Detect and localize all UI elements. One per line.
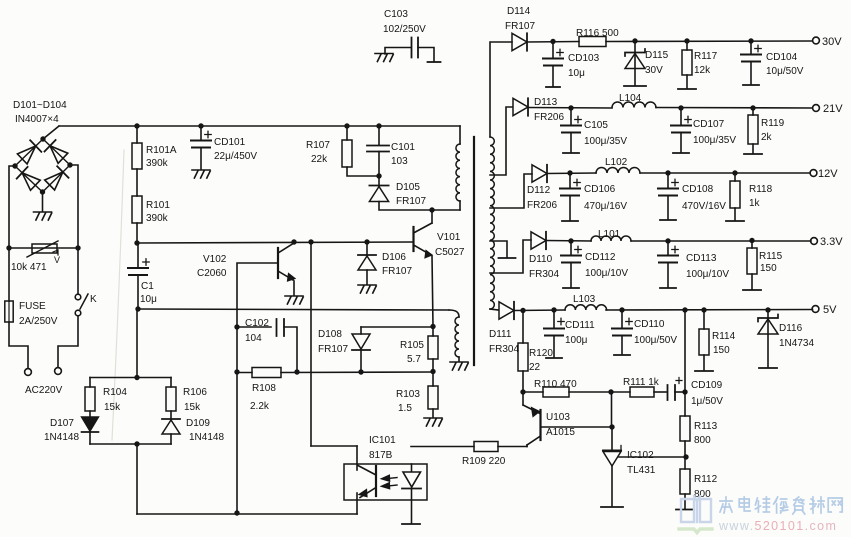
label CD108 [682,184,714,195]
capacitor C101 [367,146,389,152]
label 15k r104 [104,402,121,413]
svg-text:R116 500: R116 500 [576,28,619,39]
resistor R111 [630,387,654,397]
svg-text:470μ/16V: 470μ/16V [584,201,627,212]
svg-text:CD110: CD110 [634,319,665,330]
inductor L103 [565,305,607,310]
terminal 21V [813,105,820,112]
label CD103 [568,53,600,64]
label CD104 [766,52,798,63]
svg-text:817B: 817B [369,450,393,461]
bridge rectifier D101~D104 [12,136,72,194]
svg-text:CD113: CD113 [686,253,717,264]
wire CD112 bottom [570,263,572,288]
bar R112 gnd [676,509,694,511]
label 22 r120 [529,362,541,373]
svg-text:12k: 12k [694,65,711,76]
diode D107 [82,411,99,432]
diode D109 [162,411,180,434]
label C101 [391,142,415,153]
svg-text:R110 470: R110 470 [534,379,577,390]
svg-text:100μ: 100μ [565,335,588,346]
wire R107 top [346,126,348,140]
label 103 [391,156,408,167]
capacitor CD103 [543,42,563,66]
label TL431 [627,465,656,476]
transformer secondary winding [490,137,494,309]
label C105 [584,120,608,131]
label FR107 d106 [382,266,412,277]
svg-text:D110: D110 [529,254,553,265]
capacitor CD106 [560,173,580,196]
resistor R106 [166,378,176,412]
svg-text:30V: 30V [822,36,842,48]
svg-text:104: 104 [245,333,262,344]
svg-text:R108: R108 [252,383,276,394]
label 30V d115 [645,65,663,76]
label 1N4734 [779,338,814,349]
wire C105 bottom [570,133,572,153]
svg-text:150: 150 [713,345,730,356]
wire U103 collector to R109 [498,445,527,447]
capacitor CD109 [668,378,683,401]
label U103 [546,412,570,423]
wire 5V rail [514,307,813,313]
wire C102 left down [234,327,239,375]
wire TL431 anode [611,466,613,506]
wire bridge top to HV bus [43,126,59,139]
resistor R107 [342,140,352,167]
label FUSE [19,301,46,312]
wire varistor row [6,245,80,250]
switch K [75,294,88,316]
svg-text:C102: C102 [245,318,269,329]
wire CD109 node to 5V rail [684,310,686,392]
wire IC101 vert from base bus [310,242,312,446]
wire feedback winding lead-in [449,310,459,317]
label R112 [694,474,718,485]
ground CD101 [192,170,210,178]
wire C101 stem [378,126,380,145]
svg-text:10k 471: 10k 471 [11,262,47,273]
svg-text:IC102: IC102 [627,450,654,461]
wire fb row d [675,389,688,394]
svg-text:100μ/50V: 100μ/50V [634,335,677,346]
label D112 [527,185,551,196]
label 5V out [823,304,837,316]
resistor R112 [680,469,690,494]
svg-text:CD111: CD111 [565,320,595,331]
bar D116 [759,367,777,369]
label R101 [146,200,170,211]
wire right leg to switch [77,248,79,294]
resistor R108 [252,368,281,378]
bar CD112 [563,287,579,289]
bar C105 [563,152,579,154]
label IN4007×4 [15,114,59,125]
wire 30V rail a [527,39,579,44]
bar R119 [744,153,762,155]
label 100u/50V cd110 [634,335,677,346]
svg-text:FR304: FR304 [529,269,559,280]
shunt-reg IC102 TL431 [603,446,621,467]
label R118 [749,184,773,195]
watermark book icon [679,496,712,533]
label L104 [619,93,642,104]
diode D113 [513,98,528,115]
label IC101 [369,435,396,446]
wire R119 bottom [752,144,754,153]
svg-text:D112: D112 [527,185,551,196]
svg-text:D108: D108 [318,329,342,340]
diode D108 [352,327,370,350]
label 10u cd103 [568,68,585,79]
svg-text:5V: 5V [823,304,837,316]
ground bridge [34,212,52,220]
phototransistor IC101 [358,466,376,498]
diode D105 [369,176,388,202]
wire D107 bottom [89,432,91,444]
svg-text:15k: 15k [184,402,201,413]
wire CD101 bottom [200,148,202,170]
svg-text:100μ/35V: 100μ/35V [693,135,736,146]
label CD112 [585,252,616,263]
terminal 12V [810,170,817,177]
diode D106 [358,242,376,270]
svg-text:L101: L101 [598,229,621,240]
wire R115 bottom [751,274,753,289]
svg-text:D113: D113 [534,97,558,108]
svg-text:1N4734: 1N4734 [779,338,814,349]
label 100u cd111 [565,335,588,346]
diode D110 [531,232,546,249]
svg-text:R109 220: R109 220 [462,456,506,467]
wire LV bus y310 [138,309,449,310]
resistor R103 [428,386,438,409]
wire CD111 bottom [553,336,555,358]
label R109 220 [462,456,506,467]
svg-text:21V: 21V [823,103,843,115]
ground C103 [375,54,393,62]
svg-text:150: 150 [760,263,777,274]
inductor L104 [612,102,656,107]
svg-text:1μ/50V: 1μ/50V [691,396,723,407]
label R108 [252,383,276,394]
svg-text:C105: C105 [584,120,608,131]
label FR304 d110 [529,269,559,280]
svg-text:D111: D111 [489,329,512,340]
wire D108 top link y327 [361,324,436,329]
label D110 [529,254,553,265]
wire R118 bottom [734,208,736,220]
label D107 [50,418,74,429]
terminal 5V [812,306,819,313]
wire R120 bottom [522,371,524,392]
transformer core [473,137,475,365]
wire C101 to node [376,152,381,179]
svg-text:1N4148: 1N4148 [189,432,224,443]
wire TL431 ref [619,454,689,459]
svg-text:390k: 390k [146,213,169,224]
wire 30V rail b [606,38,812,43]
label D106 [382,252,406,263]
resistor R115 [747,241,757,275]
svg-text:R112: R112 [694,474,718,485]
svg-text:V102: V102 [203,254,227,265]
capacitor C103 [412,38,419,58]
resistor R116 [579,37,606,47]
svg-text:CD109: CD109 [691,380,723,391]
svg-text:FR206: FR206 [527,200,557,211]
svg-text:2.2k: 2.2k [250,401,270,412]
svg-text:IN4007×4: IN4007×4 [15,114,59,125]
wire 21V rail b [656,105,812,110]
svg-text:L104: L104 [619,93,642,104]
svg-text:D114: D114 [507,6,531,17]
label CD113 [686,253,717,264]
label R117 [694,51,718,62]
label V102 [203,254,227,265]
wire 12V rail a [547,170,596,175]
label CD110 [634,319,665,330]
svg-text:C5027: C5027 [435,247,465,258]
LED IC101 [402,464,421,489]
svg-text:10μ: 10μ [568,68,585,79]
label CD111 [565,320,595,331]
svg-text:V101: V101 [437,232,461,243]
diode D114 [512,33,527,50]
wire R101 to node [134,223,139,246]
label FR206 d113 [534,112,564,123]
svg-text:L103: L103 [573,294,596,305]
svg-text:D106: D106 [382,252,406,263]
wire U103 base [541,424,615,429]
label 5.7 [407,354,421,365]
svg-text:102/250V: 102/250V [383,24,426,35]
bar R118 [726,220,744,222]
transistor V101 [414,223,433,258]
svg-text:L102: L102 [605,157,628,168]
svg-text:R117: R117 [694,51,718,62]
wire tap center bar [490,241,507,257]
bar CD103 [546,86,560,88]
terminal 30V [813,37,820,44]
label R115 [759,251,783,262]
label 15k r106 [184,402,201,413]
capacitor CD113 [658,241,678,263]
wire R114 bottom [703,355,705,370]
label FR304 d111 [489,344,519,355]
bar D115 [624,85,646,87]
fuse FUSE 2A/250V [5,301,13,322]
svg-text:CD107: CD107 [693,119,725,130]
label C5027 [435,247,465,258]
svg-text:1.5: 1.5 [398,403,412,414]
inductor L102 [596,168,640,174]
svg-text:FR304: FR304 [489,344,519,355]
wire D115 bottom [634,69,636,86]
wire D105 to snubber line [379,202,460,213]
inductor L101 [591,236,631,241]
svg-text:D105: D105 [396,182,420,193]
label R114 [712,331,736,342]
label 100u/10V cd113 [686,269,729,280]
wire R101A top [136,126,138,143]
label 102/250V [383,24,426,35]
resistor R120 [518,311,528,372]
label V101 [437,232,461,243]
svg-text:C103: C103 [384,9,408,20]
wire V101 collector [431,210,433,223]
zener D115 [625,41,645,85]
svg-text:2A/250V: 2A/250V [19,316,58,327]
label 817B [369,450,393,461]
svg-text:FR107: FR107 [505,21,535,32]
wire R107 bottom to node [347,167,379,176]
label 12V out [818,168,838,180]
label R110 470 [534,379,577,390]
svg-text:FR107: FR107 [318,344,348,355]
svg-text:C101: C101 [391,142,415,153]
svg-text:K: K [90,294,97,305]
svg-text:1k: 1k [749,198,761,209]
ground D106 [358,285,376,293]
wire scan crease (faint) [112,150,124,440]
label D109 [186,418,210,429]
svg-text:390k: 390k [146,158,169,169]
wire fb row b [569,389,630,394]
label 470V/16V [682,201,726,212]
label AC220V [25,385,63,396]
svg-text:R114: R114 [712,331,736,342]
svg-text:D109: D109 [186,418,210,429]
wire primary top lead [459,126,461,144]
svg-text:103: 103 [391,156,408,167]
wire sense row top [90,375,171,380]
wire TL431 cathode [611,427,613,450]
capacitor C102 [237,319,297,372]
wire bridge left leg [9,166,15,248]
wire fb row a [520,389,543,394]
wire IC101 collector pin [311,446,357,470]
bar R117 [678,88,696,90]
label IC102 [627,450,654,461]
label R111 1k [623,377,660,388]
svg-text:TL431: TL431 [627,465,656,476]
label 2k [761,132,773,143]
svg-text:R118: R118 [749,184,773,195]
terminal AC N [55,368,62,375]
label 100u/35V c105 [584,136,627,147]
wire V102 emitter to gnd [293,281,295,295]
wire R103 stems [432,372,434,417]
svg-text:15k: 15k [104,402,121,413]
wire junction to U103 base [611,392,613,427]
svg-text:1N4148: 1N4148 [44,432,79,443]
svg-text:R101A: R101A [146,145,177,156]
capacitor CD107 [671,108,691,133]
bar R114 [695,370,713,372]
svg-text:CD103: CD103 [568,53,600,64]
wire tap 3.3V [490,240,531,273]
wire V102 base column lower [234,372,239,516]
svg-text:R103: R103 [396,389,420,400]
svg-text:2k: 2k [761,132,773,143]
svg-text:R104: R104 [103,387,127,398]
watermark text url [718,519,837,533]
wire primary bottom lead [459,201,461,210]
resistor R119 [748,108,758,144]
watermark text cn [720,497,842,514]
resistor R118 [730,173,740,208]
label 100u/10V cd112 [585,268,628,279]
label 22u/450V [214,151,257,162]
label C1 [141,281,154,292]
label L103 [573,294,596,305]
wire CD106 bottom [569,196,571,221]
terminal AC L [25,369,32,376]
svg-text:C2060: C2060 [197,268,227,279]
label L101 [598,229,621,240]
bar CD107 [673,152,689,154]
wire base bus y242 [138,239,413,244]
svg-text:R107: R107 [306,140,330,151]
resistor R104 [85,378,95,412]
svg-text:22k: 22k [311,154,328,165]
wire R109 to IC101 LED [411,446,474,448]
svg-text:IC101: IC101 [369,435,396,446]
wire U103 emitter [522,392,524,405]
label 1k r118 [749,198,761,209]
bar LED gnd [402,523,420,525]
wire CD107 bottom [680,133,682,153]
label R116 500 [576,28,619,39]
label L102 [605,157,628,168]
label CD106 [584,184,616,195]
label 21V out [823,103,843,115]
label 2.2k [250,401,270,412]
wire C103 right [418,48,434,62]
label 1N4148 d109 [189,432,224,443]
wire D106 to gnd [366,270,368,284]
label FR107 d114 [505,21,535,32]
wire tap 12V [490,174,532,208]
svg-text:CD106: CD106 [584,184,616,195]
wire R105 stems [432,326,434,372]
wire secondary top lead to D114 [490,42,512,137]
wire R117 bottom [686,75,688,88]
svg-text:100μ/10V: 100μ/10V [686,269,729,280]
label 1N4148 d107 [44,432,79,443]
label CD109 [691,380,723,391]
transistor V102 [278,243,295,281]
label R105 [400,340,424,351]
capacitor CD108 [658,173,678,196]
terminal 3.3V [811,238,818,245]
bar C103 end [428,61,441,63]
capacitor CD111 [544,310,564,336]
ground V102 [285,296,303,304]
resistor R109 [474,442,498,452]
resistor R105 [428,336,438,359]
svg-text:D101~D104: D101~D104 [13,100,67,111]
transformer primary winding [456,144,460,201]
label 390k b [146,213,169,224]
label 10u [140,294,157,305]
varistor 10k471 [27,241,60,265]
wire sense row bottom [90,441,171,446]
label R101A [146,145,177,156]
